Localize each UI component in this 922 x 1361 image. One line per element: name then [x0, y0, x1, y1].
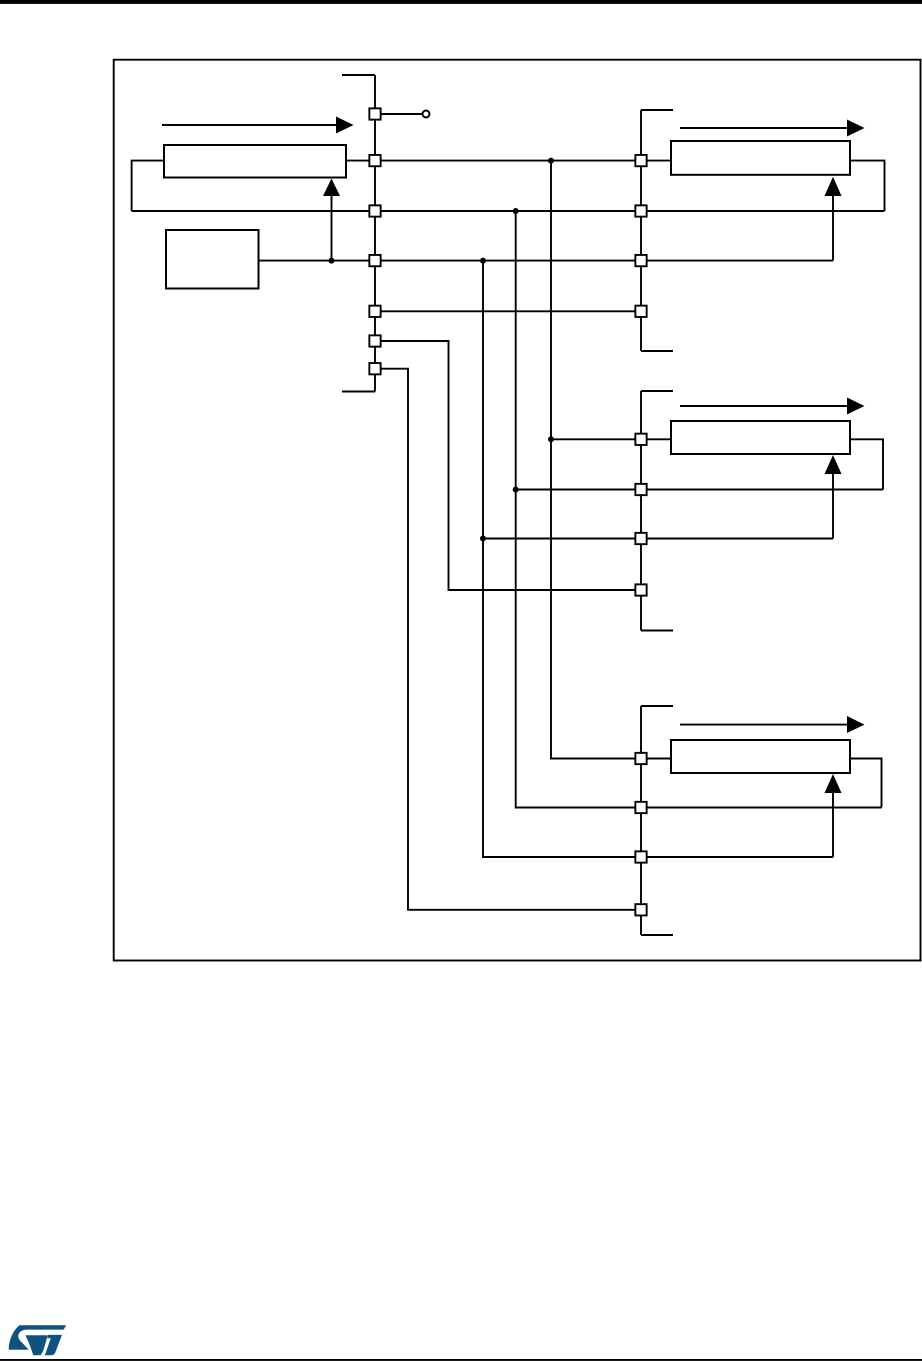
wire TIM3 feedback right leg: [850, 439, 883, 489]
wire TIM4 ITR2 line (y=857): [483, 856, 833, 858]
TIM3 clock flow arrow: [680, 398, 865, 415]
node TIM2-1: [635, 155, 646, 166]
wire node5 to TIM3 ITR (y=341): [375, 341, 641, 590]
TIM1 bus bracket top: [342, 74, 375, 76]
node TIM1-1: [369, 108, 380, 119]
TIM2 clock flow arrow: [680, 120, 865, 137]
ETR terminal circle: [423, 111, 430, 118]
node TIM1-4: [369, 255, 380, 266]
TIM1 counter block: [164, 145, 346, 178]
TIM2 bus bracket top: [641, 109, 673, 111]
wire TIM3 ITR2 line (y=538.5): [483, 538, 833, 540]
node TIM3-1: [635, 434, 646, 445]
TIM1 clock flow arrow: [162, 117, 354, 134]
wire TIM3 ITR1 line (y=489.5): [516, 489, 883, 491]
TIM2 bus bracket bottom: [641, 350, 673, 352]
wire vertical x=551: [551, 161, 641, 759]
node TIM4-2: [635, 802, 646, 813]
TIM4 ITR bus line: [640, 706, 642, 935]
junction dot E: [548, 436, 554, 442]
TIM2 trigger up arrow: [825, 177, 842, 261]
wire node1 to ETR pad: [381, 113, 422, 115]
wire vertical x=515.7: [516, 211, 641, 808]
wire to TIM3 ITR0 (y=439.3): [551, 438, 671, 440]
node TIM3-3: [635, 533, 646, 544]
TIM4 trigger up arrow: [825, 774, 842, 857]
junction dot A: [548, 158, 554, 164]
wire TIM1 feedback left leg: [132, 161, 164, 211]
junction dot B: [513, 208, 519, 214]
node TIM1-3: [369, 205, 380, 216]
TIM4 bus bracket top: [641, 705, 673, 707]
wire TIM2 feedback right leg: [850, 161, 885, 211]
node TIM2-4: [635, 306, 646, 317]
junction dot G: [480, 536, 486, 542]
TIM1 ITR bus line: [374, 75, 376, 392]
TIM3 trigger up arrow: [825, 455, 842, 539]
wire TIM2 TRGO line (y=211): [132, 210, 885, 212]
node TIM3-2: [635, 484, 646, 495]
junction dot D: [329, 258, 335, 264]
TIM2 counter block: [671, 141, 850, 175]
junction dot C: [480, 258, 486, 264]
page bottom rule: [0, 1359, 922, 1361]
TIM1 trigger up arrow: [323, 179, 340, 261]
junction dot F: [513, 487, 519, 493]
ST logo: [9, 1325, 66, 1355]
TIM2 ITR bus line: [640, 110, 642, 351]
node TIM2-3: [635, 255, 646, 266]
node TIM4-1: [635, 753, 646, 764]
TIM4 clock flow arrow: [680, 716, 865, 733]
TIM3 counter block: [671, 421, 850, 454]
TIM1 prescaler block: [166, 230, 259, 289]
wire TIM4 TRGO line (y=311.3): [375, 310, 641, 312]
figure frame: [114, 60, 921, 961]
wire TIM3 TRGO line (y=260.6): [259, 260, 834, 262]
node TIM2-2: [635, 205, 646, 216]
TIM4 bus bracket bottom: [641, 934, 673, 936]
wire TIM4 feedback right leg: [850, 759, 882, 808]
page top rule: [0, 0, 922, 4]
wire node6 to TIM4 ITR (y=368.7): [375, 369, 641, 910]
node TIM4-4: [635, 904, 646, 915]
node TIM1-5: [369, 306, 380, 317]
TIM3 bus bracket top: [641, 390, 673, 392]
TIM3 bus bracket bottom: [641, 630, 673, 632]
node TIM1-6: [369, 335, 380, 346]
wire TIM1 TRGO to TIM2 (y=160.6): [346, 160, 671, 162]
wire to TIM4 ITR0 (y=758.5): [551, 758, 671, 760]
TIM1 bus bracket bottom: [342, 391, 375, 393]
node TIM1-7: [369, 363, 380, 374]
node TIM3-4: [635, 584, 646, 595]
wire vertical x=483: [483, 261, 641, 857]
TIM4 counter block: [671, 740, 850, 773]
node TIM4-3: [635, 851, 646, 862]
node TIM1-2: [369, 155, 380, 166]
TIM3 ITR bus line: [640, 391, 642, 631]
wire TIM4 ITR1 line (y=807.5): [516, 807, 882, 809]
